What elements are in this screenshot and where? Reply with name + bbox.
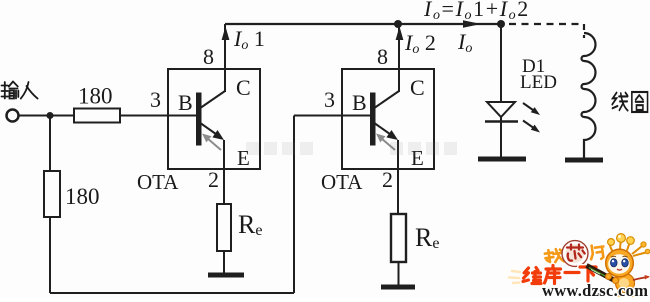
svg-text:OTA: OTA	[321, 170, 363, 194]
svg-text:OTA: OTA	[137, 170, 179, 194]
svg-text:180: 180	[65, 184, 100, 209]
svg-text:Io 2: Io 2	[404, 30, 436, 57]
svg-text:LED: LED	[520, 72, 557, 93]
svg-text:www.dzsc.com: www.dzsc.com	[542, 281, 648, 297]
svg-text:Io 1: Io 1	[233, 26, 265, 53]
svg-text:180: 180	[78, 84, 113, 109]
